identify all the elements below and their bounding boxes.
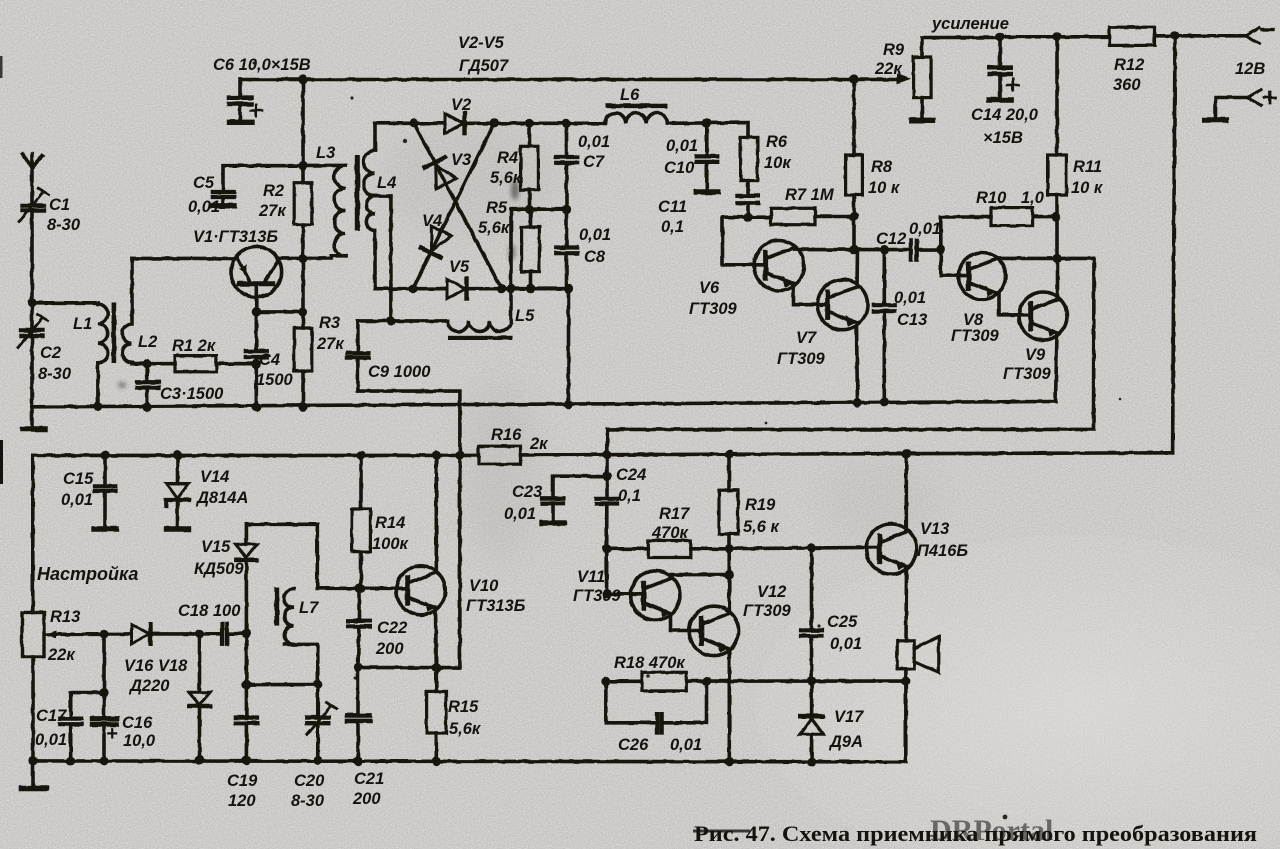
svg-text:С7: С7 (583, 153, 605, 171)
svg-text:R14: R14 (375, 514, 405, 532)
node L1 bottom rail (93, 402, 102, 411)
svg-text:Рис. 47. Схема приемника прямо: Рис. 47. Схема приемника прямого преобра… (694, 821, 1257, 846)
svg-text:L2: L2 (138, 333, 157, 351)
svg-text:V2-V5: V2-V5 (458, 34, 505, 52)
svg-text:R2: R2 (263, 182, 284, 200)
svg-text:С25: С25 (827, 613, 858, 631)
resistor R14 100k (352, 455, 371, 588)
wire R1 to C4 (216, 362, 256, 366)
svg-text:V17: V17 (834, 708, 864, 726)
resistor R19 5,6k (719, 454, 738, 553)
svg-text:0,01: 0,01 (504, 505, 536, 523)
svg-text:R3: R3 (319, 314, 340, 332)
node C4 rail (252, 402, 261, 411)
potentiometer R9 22k usileniye (911, 38, 1000, 121)
ground below left vertical (23, 407, 46, 430)
resistor R8 10k (846, 79, 863, 250)
node base stem right (298, 307, 307, 316)
wire C4 to ground rail (254, 364, 258, 407)
wire amp node y548 to V13 base (729, 543, 879, 552)
resistor R17 470k (602, 541, 729, 558)
diode V3 on diagonal (414, 123, 502, 288)
capacitor C6 10,0x15V electrolytic (229, 80, 262, 123)
capacitor C15 0,01 (94, 455, 116, 529)
svg-text:V6: V6 (699, 279, 720, 297)
caption strike artifact (693, 830, 750, 833)
svg-text:L4: L4 (377, 174, 396, 192)
capacitor C8 0,01 (556, 209, 577, 289)
svg-text:L3: L3 (316, 144, 335, 162)
svg-text:200: 200 (375, 640, 404, 658)
transistor V9 GT309 (1019, 292, 1067, 340)
node C5/L3 junction (298, 161, 307, 170)
wire C11 to V6 base (723, 217, 766, 265)
capacitor C18 100 (200, 624, 247, 644)
svg-text:ГТ309: ГТ309 (951, 327, 1000, 345)
svg-text:V12: V12 (757, 583, 786, 601)
svg-text:Д9А: Д9А (828, 733, 863, 751)
svg-text:R5: R5 (486, 199, 508, 217)
svg-text:1,0: 1,0 (1021, 189, 1045, 207)
wire V1 collector to L3 bottom (279, 257, 331, 261)
svg-text:С6 10,0×15В: С6 10,0×15В (213, 56, 311, 74)
svg-text:L7: L7 (299, 599, 319, 617)
svg-text:V3: V3 (451, 151, 471, 169)
svg-text:L5: L5 (515, 307, 535, 325)
svg-text:10к: 10к (764, 154, 792, 172)
svg-text:Д220: Д220 (128, 677, 170, 695)
connector plus 12V with ground (1205, 90, 1276, 120)
svg-text:С4: С4 (259, 351, 280, 369)
capacitor C17 0,01 (60, 688, 108, 766)
svg-text:100к: 100к (372, 535, 410, 553)
speaker (897, 637, 939, 673)
wire V15 line to L7 bottom (246, 634, 317, 685)
transistor V13 P416B (866, 524, 916, 574)
wire R13 tuning vertical (31, 455, 35, 612)
svg-text:R16: R16 (491, 426, 522, 444)
wire L7 bottom vertical / C20 (316, 647, 320, 715)
svg-text:12В: 12В (1235, 60, 1265, 78)
capacitor C7 0,01 (556, 123, 577, 209)
wire V9 emitter to ground rail (1056, 333, 1058, 402)
inductor L7 (274, 588, 317, 647)
wire left antenna vertical (30, 211, 34, 407)
node collector/R2 junction (298, 254, 307, 263)
svg-text:П416Б: П416Б (917, 542, 968, 560)
svg-text:R10: R10 (976, 189, 1007, 207)
svg-text:1500: 1500 (256, 371, 294, 389)
wire V8 collector (996, 254, 1094, 263)
inductor L4 with center tap (364, 123, 391, 288)
svg-text:0,01: 0,01 (578, 133, 610, 151)
wire to L1 (32, 301, 98, 305)
capacitor C25 0,01 (801, 548, 822, 681)
resistor R5 5,6k (522, 209, 540, 289)
wire feedback vertical x1094 (607, 258, 1094, 429)
svg-text:С16: С16 (122, 714, 153, 732)
resistor R15 5,6k (427, 668, 446, 766)
wire lower ground rail (22, 756, 906, 788)
svg-text:ГТ313Б: ГТ313Б (466, 597, 526, 615)
svg-text:ГТ309: ГТ309 (777, 350, 826, 368)
node V18 junction (195, 629, 204, 638)
svg-text:+: + (106, 723, 118, 745)
wire lower supply rail y455 (33, 449, 1173, 460)
wire V7 emitter down (857, 323, 858, 406)
svg-text:С1: С1 (49, 196, 70, 214)
capacitor C26 0,01 (606, 681, 707, 733)
wire V9 collector up (1056, 258, 1060, 299)
svg-text:R6: R6 (766, 133, 788, 151)
transformer core L1/L2 (112, 303, 117, 364)
resistor R16 2k (479, 446, 521, 464)
capacitor C21 200 (347, 668, 370, 766)
svg-text:V7: V7 (796, 329, 817, 347)
svg-text:V15: V15 (201, 538, 231, 556)
wire top rail (240, 74, 911, 85)
svg-text:С3·1500: С3·1500 (160, 385, 224, 403)
svg-text:ГТ309: ГТ309 (743, 602, 792, 620)
wire mixer top (375, 119, 605, 128)
diode V18 D220 (189, 634, 210, 765)
node mixer ground (564, 400, 573, 409)
svg-text:0,1: 0,1 (618, 487, 641, 505)
resistor R4 5,6k (521, 123, 539, 209)
svg-text:С18 100: С18 100 (178, 602, 241, 620)
zener V14 D814A (166, 455, 189, 529)
svg-text:0,01: 0,01 (579, 226, 611, 244)
node V15/R13 wire junction (242, 629, 251, 638)
svg-text:ГТ309: ГТ309 (689, 300, 738, 318)
capacitor C3 1500 (137, 364, 159, 412)
resistor R3 27k (294, 328, 312, 371)
wire V6 emitter to V7 base (794, 290, 827, 305)
transistor V10 GT313B (396, 566, 445, 615)
svg-text:V1·ГТ313Б: V1·ГТ313Б (193, 228, 278, 246)
svg-text:2к: 2к (529, 435, 549, 453)
svg-text:С15: С15 (63, 470, 94, 488)
svg-text:V9: V9 (1025, 346, 1046, 364)
svg-text:R4: R4 (497, 149, 518, 167)
capacitor C23 0,01 (542, 476, 607, 523)
svg-text:V10: V10 (469, 577, 499, 595)
wire V7 collector up (855, 250, 859, 287)
svg-text:С9 1000: С9 1000 (368, 363, 431, 381)
svg-text:R18 470к: R18 470к (614, 654, 686, 672)
svg-text:8-30: 8-30 (47, 216, 81, 234)
svg-text:R17: R17 (659, 505, 690, 523)
svg-text:R8: R8 (871, 158, 893, 176)
svg-text:С12: С12 (876, 230, 906, 248)
antenna W1 (23, 154, 43, 204)
inductor L6 (605, 104, 668, 124)
transistor V11 GT309 (602, 571, 680, 620)
wire R12 right vertical down (1173, 36, 1175, 453)
wire V1 base stem junction (256, 310, 303, 314)
svg-text:0,01: 0,01 (61, 491, 93, 509)
wire L1 bottom (96, 363, 100, 407)
wire R16 corner up (605, 429, 609, 454)
node L4 tap / C9 wire (386, 316, 395, 325)
svg-text:V4: V4 (422, 212, 442, 230)
resistor R1 2k (175, 356, 216, 372)
resistor R11 10k (1048, 36, 1067, 258)
svg-text:120: 120 (228, 792, 256, 810)
capacitor C22 200 (348, 584, 370, 668)
svg-text:0,01: 0,01 (830, 635, 862, 653)
svg-text:усиление: усиление (931, 15, 1009, 33)
svg-text:Д814А: Д814А (195, 489, 248, 507)
wire V12 emitter down to ground rail (725, 649, 734, 767)
node R3 bottom rail (298, 402, 307, 411)
inductor L2 (122, 258, 132, 363)
node C3 junction (143, 359, 152, 368)
svg-text:8-30: 8-30 (291, 792, 325, 810)
capacitor C19 120 (236, 685, 257, 765)
svg-text:С22: С22 (377, 619, 407, 637)
svg-text:С17: С17 (36, 707, 67, 725)
wire ground rail upper section (32, 402, 1056, 407)
svg-text:ГД507: ГД507 (459, 57, 509, 75)
wire V13 collector up to rail (904, 454, 908, 532)
svg-text:27к: 27к (258, 202, 287, 220)
wire emitter node y667 (353, 663, 460, 672)
node antenna/L1 junction (27, 298, 36, 307)
inductor L5 (448, 321, 513, 340)
svg-text:R12: R12 (1114, 56, 1144, 74)
svg-text:С19: С19 (227, 772, 258, 790)
svg-text:V16 V18: V16 V18 (124, 657, 188, 675)
transistor V1 GT313B (231, 246, 282, 311)
node base stem left (252, 307, 261, 316)
capacitor C5 0,01 (212, 192, 235, 206)
capacitor C14 20,0x15V electrolytic (989, 37, 1019, 100)
svg-text:V5: V5 (449, 258, 470, 276)
svg-text:R19: R19 (745, 496, 776, 514)
wire V6 collector node (795, 245, 910, 254)
diode V4 on diagonal (413, 123, 494, 288)
wire R18 node y681 (601, 676, 910, 686)
capacitor C2 (trimmer 8-30) (18, 315, 48, 348)
svg-text:470к: 470к (651, 524, 690, 542)
wire V10 collector up to rail (434, 455, 438, 572)
diode V2 (445, 114, 465, 134)
capacitor C10 0,01 (696, 123, 718, 192)
wire V1 base wire from L2 (132, 257, 235, 261)
svg-text:V13: V13 (920, 520, 949, 538)
svg-text:С10: С10 (664, 159, 695, 177)
wire V12 collector vertical (727, 549, 731, 611)
diode V16 D220 (104, 624, 200, 644)
capacitor C11 0,1 (737, 181, 758, 218)
wire top supply to minus terminal (995, 31, 1245, 41)
node R13 wiper / C16 (99, 629, 108, 638)
svg-text:0,1: 0,1 (661, 218, 684, 236)
wire R4R5 mid (511, 205, 571, 214)
svg-text:10 к: 10 к (1071, 179, 1104, 197)
capacitor C13 0,01 (874, 250, 895, 407)
svg-text:R15: R15 (448, 698, 479, 716)
capacitor C1 (trimmer 8-30) (19, 189, 49, 222)
transistor V8 GT309 (959, 253, 1006, 300)
svg-text:0,01: 0,01 (909, 220, 941, 238)
resistor R10 1,0 (936, 208, 1056, 255)
node R1/C4 junction (252, 359, 261, 368)
svg-text:С23: С23 (512, 483, 542, 501)
wire V13 emitter down / speaker line (904, 567, 908, 762)
wire V8 emitter to V9 base (996, 293, 1031, 315)
svg-text:R1 2к: R1 2к (172, 337, 217, 355)
svg-text:V2: V2 (451, 96, 471, 114)
svg-text:8-30: 8-30 (38, 365, 72, 383)
capacitor C16 10,0 electrolytic (92, 634, 117, 766)
wire L2 bottom to R1 (132, 361, 175, 366)
svg-text:С8: С8 (584, 248, 606, 266)
svg-text:22к: 22к (874, 60, 903, 78)
svg-text:0,01: 0,01 (894, 289, 926, 307)
wire V11 collector to x729 (672, 570, 734, 579)
wire mixer output down to ground rail (567, 289, 571, 405)
svg-text:Настройка: Настройка (37, 564, 138, 584)
diode V17 D9A (800, 681, 823, 767)
svg-text:0,01: 0,01 (188, 198, 220, 216)
potentiometer R13 22k (22, 613, 104, 761)
diode V15 KD509 (236, 524, 318, 633)
transformer core L3/L4 (355, 155, 360, 231)
resistor R18 470k (642, 672, 687, 691)
svg-text:ГТ309: ГТ309 (573, 587, 622, 605)
svg-text:С21: С21 (354, 770, 384, 788)
wire V10 emitter down (434, 608, 438, 668)
capacitor C4 1500 (246, 312, 267, 364)
svg-text:5,6 к: 5,6 к (743, 518, 781, 536)
scan specks (118, 62, 1121, 820)
wire mixer bottom (375, 284, 573, 293)
connector minus 12V (1246, 28, 1274, 44)
svg-text:С2: С2 (40, 344, 61, 362)
svg-text:С20: С20 (294, 772, 325, 790)
svg-text:С13: С13 (897, 311, 927, 329)
svg-text:10 к: 10 к (868, 179, 901, 197)
inductor L1 (98, 303, 108, 363)
svg-text:5,6к: 5,6к (490, 169, 523, 187)
capacitor C24 0,1 (597, 455, 618, 594)
resistor R7 1M (743, 208, 858, 224)
svg-text:0,01: 0,01 (666, 137, 698, 155)
svg-text:360: 360 (1113, 76, 1141, 94)
wire V11 emitter to V12 base (671, 614, 701, 631)
transistor V6 GT309 (754, 241, 804, 291)
svg-text:КД509: КД509 (194, 560, 244, 578)
svg-text:10,0: 10,0 (123, 732, 156, 750)
svg-text:V11: V11 (577, 568, 605, 586)
inductor L3 (305, 165, 346, 258)
page highlight bottom right (755, 535, 1280, 849)
wire C5 branch (223, 166, 303, 190)
svg-text:5,6к: 5,6к (449, 720, 482, 738)
svg-text:R11: R11 (1073, 158, 1102, 176)
svg-text:С5: С5 (193, 174, 215, 192)
svg-text:200: 200 (352, 790, 381, 808)
svg-text:R9: R9 (883, 41, 905, 59)
resistor R6 10k (741, 137, 758, 180)
svg-text:L1: L1 (73, 315, 92, 333)
wire R2/R3 vertical (301, 80, 305, 407)
svg-text:22к: 22к (47, 646, 76, 664)
diode V5 (447, 279, 467, 299)
capacitor C12 0,01 (911, 240, 941, 259)
wire L6 to R6 corner (667, 118, 748, 137)
svg-text:С14 20,0: С14 20,0 (971, 106, 1039, 124)
transistor V7 GT309 (818, 280, 868, 330)
svg-text:0,01: 0,01 (670, 736, 702, 754)
wire C12 to V8 base (941, 250, 968, 276)
wire L4 center tap down to C9 wire (389, 196, 393, 321)
svg-text:ГТ309: ГТ309 (1003, 365, 1052, 383)
node C19 top (242, 680, 251, 689)
scan left edge sliver (0, 440, 3, 484)
svg-text:0,01: 0,01 (35, 731, 67, 749)
svg-text:×15В: ×15В (983, 129, 1023, 147)
resistor R12 360 (1110, 27, 1155, 45)
svg-text:С24: С24 (616, 466, 646, 484)
svg-text:R7 1М: R7 1М (785, 186, 835, 204)
capacitor C20 8-30 trimmer (307, 703, 337, 765)
node V7 emitter rail (853, 398, 862, 407)
wire V10 base (317, 584, 407, 593)
transistor V12 GT309 (689, 606, 738, 655)
svg-text:L6: L6 (620, 86, 640, 104)
resistor R2 27k (294, 183, 312, 225)
svg-text:5,6к: 5,6к (478, 219, 511, 237)
node L7 bottom / V15 wire (313, 680, 322, 689)
svg-text:С26: С26 (618, 736, 649, 754)
capacitor C9 1000 (347, 321, 460, 668)
svg-text:27к: 27к (316, 335, 345, 353)
wire L5 right vertical up to R4/R5 mid (509, 209, 513, 321)
wire C9 top / L5 left (358, 319, 448, 323)
svg-text:R13: R13 (50, 608, 80, 626)
svg-text:V14: V14 (200, 468, 229, 486)
svg-text:С11: С11 (658, 198, 687, 216)
